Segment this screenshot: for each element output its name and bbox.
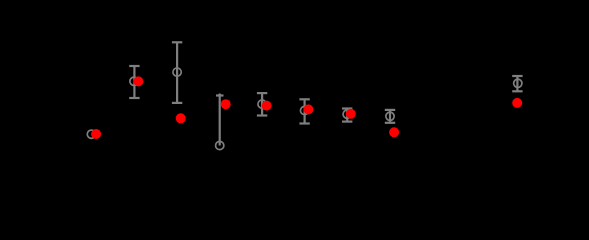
- red dot P8: [389, 127, 399, 137]
- error bar P6: [299, 99, 309, 123]
- red dot P9: [512, 98, 522, 108]
- open circle marker P1: [87, 130, 95, 138]
- red dot P6: [303, 104, 313, 114]
- red dot P1: [91, 129, 101, 139]
- error bar P9: [512, 76, 522, 91]
- open circle marker P3: [173, 68, 181, 76]
- error bar P5: [257, 93, 267, 115]
- red dot P4: [221, 99, 231, 109]
- error bar P4 (upper only, domed cap): [216, 93, 224, 145]
- open circle marker P9: [514, 79, 522, 87]
- error bar P2: [129, 66, 139, 98]
- open circle marker P5: [258, 100, 266, 108]
- open circle marker P4: [216, 141, 224, 149]
- red dot P3: [176, 113, 186, 123]
- error bar P3: [172, 42, 182, 103]
- open circle marker P2: [130, 77, 138, 85]
- open circle marker P6: [300, 106, 308, 114]
- red dot P2: [133, 76, 143, 86]
- open circle marker P8: [386, 112, 394, 120]
- open circle marker P7: [343, 110, 351, 118]
- error bar P8: [385, 110, 395, 123]
- error bar P7: [342, 109, 352, 122]
- red dot P5: [262, 101, 272, 111]
- red dot P7: [346, 109, 356, 119]
